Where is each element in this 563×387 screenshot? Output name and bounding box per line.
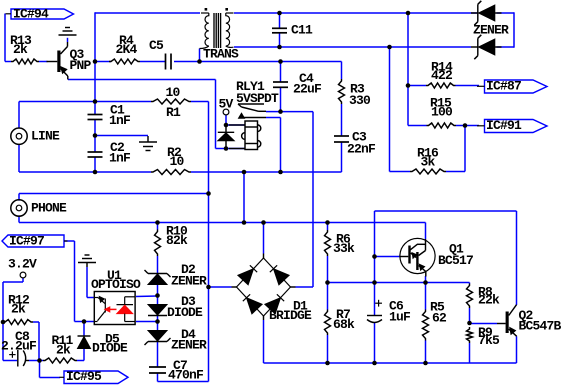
svg-text:7k5: 7k5 xyxy=(478,333,500,348)
svg-text:BRIDGE: BRIDGE xyxy=(269,308,312,323)
svg-text:ZENER: ZENER xyxy=(473,22,509,37)
svg-text:62: 62 xyxy=(432,310,447,325)
svg-text:2k: 2k xyxy=(11,301,26,316)
svg-text:2k: 2k xyxy=(13,42,28,57)
svg-text:68k: 68k xyxy=(333,317,355,332)
svg-text:5V: 5V xyxy=(219,97,234,112)
svg-text:10: 10 xyxy=(166,85,181,100)
svg-text:LINE: LINE xyxy=(31,128,60,143)
svg-text:2.2uF: 2.2uF xyxy=(1,338,37,353)
svg-text:BC547B: BC547B xyxy=(519,318,562,333)
svg-text:100: 100 xyxy=(431,104,453,119)
svg-text:IC#87: IC#87 xyxy=(486,78,521,93)
svg-text:PNP: PNP xyxy=(70,58,92,73)
svg-text:DIODE: DIODE xyxy=(92,340,128,355)
svg-text:IC#95: IC#95 xyxy=(66,369,102,384)
svg-text:IC#94: IC#94 xyxy=(13,6,49,21)
svg-text:OPTOISO: OPTOISO xyxy=(91,277,141,292)
svg-text:10: 10 xyxy=(170,154,185,169)
svg-text:DIODE: DIODE xyxy=(167,305,203,320)
svg-text:3.2V: 3.2V xyxy=(8,256,37,271)
svg-text:C5: C5 xyxy=(149,38,164,53)
svg-text:33k: 33k xyxy=(333,241,355,256)
svg-text:5VSPDT: 5VSPDT xyxy=(236,91,279,106)
svg-text:IC#97: IC#97 xyxy=(9,233,44,248)
svg-text:ZENER: ZENER xyxy=(171,273,207,288)
svg-text:1nF: 1nF xyxy=(109,113,131,128)
svg-text:22nF: 22nF xyxy=(347,141,376,156)
svg-text:22k: 22k xyxy=(478,292,500,307)
svg-text:2K4: 2K4 xyxy=(116,42,138,57)
svg-text:82k: 82k xyxy=(166,233,188,248)
svg-text:ZENER: ZENER xyxy=(171,337,207,352)
svg-text:3k: 3k xyxy=(421,154,436,169)
svg-text:1uF: 1uF xyxy=(389,309,411,324)
svg-text:C11: C11 xyxy=(291,22,313,37)
svg-text:PHONE: PHONE xyxy=(31,200,67,215)
svg-text:BC517: BC517 xyxy=(438,253,473,268)
svg-text:R1: R1 xyxy=(166,105,181,120)
svg-text:422: 422 xyxy=(431,68,453,83)
svg-text:TRANS: TRANS xyxy=(203,46,239,61)
svg-text:1nF: 1nF xyxy=(109,150,131,165)
svg-text:IC#91: IC#91 xyxy=(486,118,522,133)
svg-text:470nF: 470nF xyxy=(168,367,204,382)
svg-text:2k: 2k xyxy=(56,342,71,357)
svg-text:330: 330 xyxy=(349,93,371,108)
svg-text:22uF: 22uF xyxy=(293,81,322,96)
